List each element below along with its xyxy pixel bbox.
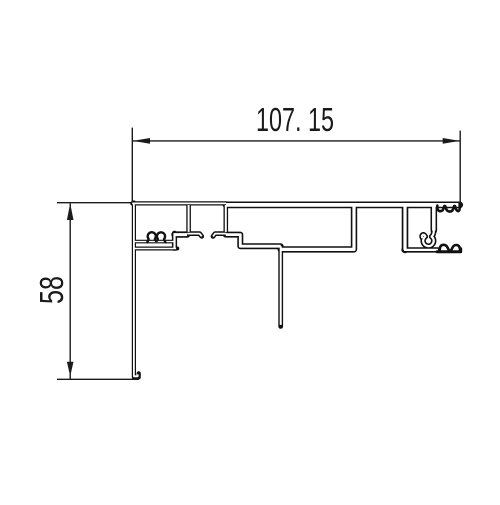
bottom interlock hook xyxy=(440,245,460,252)
left leg hollow xyxy=(134,203,138,377)
bottom base line right xyxy=(437,249,461,252)
stub down xyxy=(172,233,177,248)
bead groove bottom (left of wall1) xyxy=(175,231,188,237)
top wall right xyxy=(226,201,460,208)
top interlock hook xyxy=(437,203,459,211)
arrowhead right xyxy=(443,138,460,144)
top wall left xyxy=(132,201,226,205)
arrowhead left xyxy=(133,138,150,144)
screw boss hollow xyxy=(422,230,434,246)
lower shelf right + wall up xyxy=(281,206,354,249)
box left wall hollow xyxy=(403,206,406,250)
top tick xyxy=(57,202,132,204)
cell1 baseline hollow xyxy=(134,241,175,243)
arrowhead down xyxy=(67,362,74,376)
top wall left hollow xyxy=(132,202,226,204)
top wall right hollow xyxy=(226,203,460,207)
fin xyxy=(278,246,283,326)
box bottom hollow xyxy=(404,249,438,251)
vertical dimension line xyxy=(69,204,71,380)
outer bottom wall left xyxy=(134,247,177,251)
wall1 foot hollow xyxy=(187,234,202,237)
right extension line xyxy=(459,131,461,204)
box left wall xyxy=(402,206,409,250)
cell1 baseline xyxy=(134,240,175,244)
wall2 hollow xyxy=(225,205,227,232)
shelf, step down, lower shelf to fin xyxy=(226,235,281,247)
lower shelf right hollow xyxy=(281,206,354,249)
bottom tick xyxy=(57,378,139,380)
omega screw channel xyxy=(147,232,165,242)
bead groove bottom hollow xyxy=(175,233,188,236)
left extension line above profile xyxy=(131,128,133,203)
wall2 xyxy=(224,205,229,232)
box bottom xyxy=(404,247,438,252)
box right wall hollow xyxy=(432,206,436,231)
wall2 foot hollow xyxy=(213,234,226,237)
svg-text:58: 58 xyxy=(33,276,70,304)
box right wall xyxy=(430,206,437,231)
fin hollow xyxy=(280,246,282,325)
wall1 xyxy=(186,205,191,232)
outer bottom wall hollow xyxy=(134,248,176,250)
wall2 foot xyxy=(213,234,226,237)
wall1 hollow xyxy=(188,205,190,232)
arrowhead up xyxy=(67,203,74,220)
screw boss C-tube xyxy=(422,230,434,246)
horizontal dimension line xyxy=(133,140,460,142)
svg-text:107. 15: 107. 15 xyxy=(256,101,334,138)
shelf and step hollow xyxy=(226,235,281,247)
stub hollow xyxy=(173,233,175,248)
wall1 foot xyxy=(187,234,202,237)
left leg xyxy=(134,203,139,378)
